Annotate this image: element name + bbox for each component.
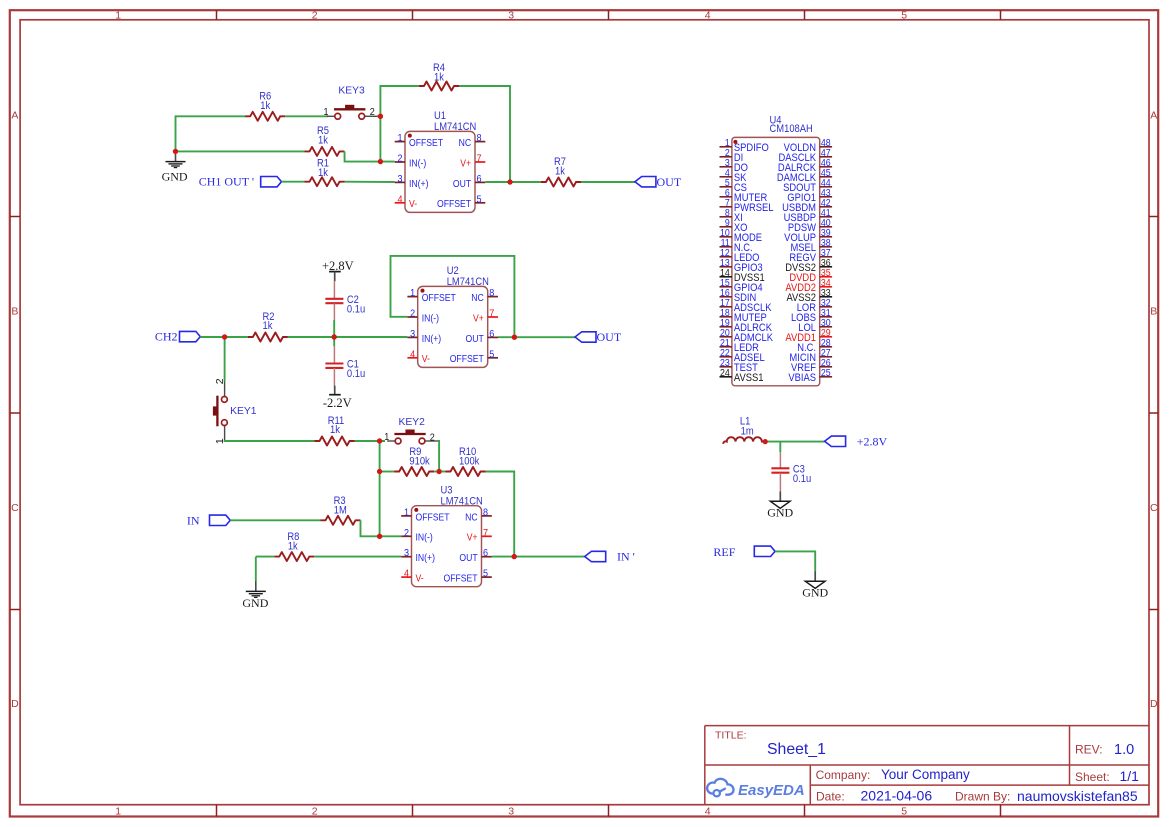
wire node down R9 row — [379, 441, 381, 472]
svg-text:5: 5 — [901, 806, 907, 818]
svg-text:Sheet_1: Sheet_1 — [767, 741, 826, 758]
svg-text:1: 1 — [410, 288, 415, 300]
svg-text:GND: GND — [162, 169, 188, 183]
svg-text:6: 6 — [489, 328, 494, 340]
junction U3 OUT node — [512, 554, 517, 559]
inductor L1 — [723, 416, 765, 444]
svg-text:Your Company: Your Company — [881, 767, 970, 782]
svg-text:Company:: Company: — [816, 768, 871, 782]
svg-text:IN(-): IN(-) — [409, 158, 426, 170]
svg-text:4: 4 — [397, 194, 403, 206]
svg-text:1: 1 — [384, 431, 389, 443]
wire GND to R6 — [176, 116, 246, 151]
svg-text:+2.8V: +2.8V — [322, 259, 354, 273]
svg-text:D: D — [11, 698, 19, 710]
op-amp U1 LM741CN — [395, 111, 486, 213]
svg-text:4: 4 — [404, 568, 410, 580]
svg-text:1M: 1M — [334, 505, 347, 517]
svg-text:KEY3: KEY3 — [338, 85, 365, 96]
svg-text:910k: 910k — [409, 456, 430, 468]
svg-text:CH2: CH2 — [155, 330, 178, 344]
svg-text:8: 8 — [483, 507, 488, 519]
svg-text:LM741CN: LM741CN — [441, 496, 483, 508]
svg-text:5: 5 — [483, 568, 488, 580]
wire node to R10 — [439, 471, 445, 473]
net flag OUT (ch1) — [635, 175, 682, 189]
wire junction to C1 — [333, 337, 335, 346]
wire R3 to U3 IN(-) — [361, 520, 402, 536]
title block — [705, 726, 1149, 805]
junction KEY3/R4 node — [378, 114, 383, 119]
resistor R9 — [394, 446, 434, 476]
wire C2 to junction — [333, 320, 335, 337]
net flag +2.8V — [825, 435, 888, 449]
svg-text:V-: V- — [416, 573, 424, 585]
svg-text:NC: NC — [459, 137, 472, 149]
resistor R10 — [446, 446, 486, 476]
svg-text:KEY2: KEY2 — [399, 417, 426, 428]
svg-text:3: 3 — [508, 806, 514, 818]
net flag OUT (ch2) — [575, 330, 622, 344]
wire CH1 flag to R1 — [282, 181, 305, 183]
svg-text:OFFSET: OFFSET — [416, 512, 450, 524]
svg-text:LM741CN: LM741CN — [434, 122, 476, 134]
wire KEY1 to R11 — [225, 440, 315, 441]
svg-text:NC: NC — [465, 512, 478, 524]
svg-text:V+: V+ — [467, 532, 478, 544]
svg-text:A: A — [11, 110, 18, 122]
junction KEY2/R9 node — [377, 438, 382, 443]
svg-text:1k: 1k — [434, 72, 445, 84]
wire IN to R3 — [230, 519, 320, 521]
wire R5 to IN(-) — [345, 151, 395, 161]
wire U2 OUT to flag — [498, 336, 575, 338]
svg-text:CM108AH: CM108AH — [770, 123, 813, 135]
svg-text:OUT: OUT — [459, 552, 477, 564]
net flag IN' — [585, 550, 635, 564]
svg-text:2: 2 — [370, 107, 375, 119]
svg-text:VBIAS: VBIAS — [788, 372, 816, 384]
wire R1 to IN(+) — [345, 181, 395, 183]
junction U1 IN(-) node — [378, 159, 383, 164]
svg-text:TITLE:: TITLE: — [715, 730, 747, 742]
svg-text:1k: 1k — [555, 166, 566, 178]
svg-text:OFFSET: OFFSET — [450, 354, 484, 366]
svg-text:naumovskistefan85: naumovskistefan85 — [1017, 788, 1138, 804]
junction R9 left node — [377, 469, 382, 474]
wire R7 to OUT flag — [581, 181, 635, 183]
resistor R4 — [419, 62, 459, 90]
svg-text:0.1u: 0.1u — [347, 369, 365, 381]
wire REF to ground — [775, 551, 815, 571]
junction U3 IN(-) node — [377, 534, 382, 539]
junction GND/R5 node — [173, 149, 178, 154]
capacitor C3 — [771, 452, 811, 491]
svg-text:1.0: 1.0 — [1114, 742, 1134, 758]
junction CH2/KEY1 node — [222, 334, 227, 339]
svg-text:U1: U1 — [434, 111, 446, 123]
svg-text:U2: U2 — [447, 266, 459, 278]
ic U4 CM108AH — [720, 115, 833, 386]
svg-text:4: 4 — [410, 349, 416, 361]
svg-text:C: C — [1150, 502, 1158, 514]
resistor R8 — [274, 531, 314, 561]
svg-text:D: D — [1150, 698, 1158, 710]
capacitor C2 — [325, 281, 365, 320]
svg-text:3: 3 — [404, 548, 409, 560]
svg-text:KEY1: KEY1 — [230, 406, 257, 417]
svg-text:2: 2 — [397, 153, 402, 165]
svg-text:OUT: OUT — [597, 330, 622, 344]
svg-text:B: B — [1150, 306, 1157, 318]
svg-text:GND: GND — [242, 596, 268, 610]
key KEY2 — [384, 417, 438, 444]
wire U2 feedback loop — [391, 256, 515, 337]
wire R6 to KEY3 — [285, 115, 328, 117]
ground GND (left) — [162, 151, 188, 183]
net flag CH1 OUT' — [199, 175, 282, 189]
svg-text:OFFSET: OFFSET — [422, 292, 456, 304]
wire R2 to U2 IN(+) — [288, 336, 408, 338]
svg-text:5: 5 — [901, 10, 907, 22]
svg-text:NC: NC — [471, 292, 484, 304]
svg-text:IN(+): IN(+) — [409, 178, 428, 190]
net flag CH2 — [155, 330, 200, 344]
svg-text:IN: IN — [187, 513, 200, 527]
wire R9 to node — [434, 471, 439, 473]
svg-text:IN(-): IN(-) — [422, 313, 439, 325]
wire R10 to U3 OUT node — [486, 472, 515, 557]
EasyEDA logo — [707, 779, 805, 799]
wire L1 to +2.8V flag — [765, 441, 824, 443]
svg-text:CH1 OUT ': CH1 OUT ' — [199, 175, 254, 189]
svg-text:1: 1 — [115, 806, 121, 818]
svg-text:7: 7 — [483, 527, 488, 539]
svg-text:8: 8 — [477, 133, 482, 145]
svg-text:1k: 1k — [318, 135, 329, 147]
svg-text:C: C — [11, 502, 19, 514]
power port +2.8V — [322, 259, 354, 282]
svg-text:2: 2 — [214, 378, 226, 384]
capacitor C1 — [325, 346, 365, 386]
wire node down to IN(-) junction — [379, 116, 381, 161]
svg-text:1: 1 — [404, 507, 409, 519]
wire R4 feedback loop left — [380, 86, 419, 116]
resistor R7 — [541, 156, 581, 186]
key KEY1 (vertical) — [213, 378, 257, 444]
svg-text:1k: 1k — [263, 321, 274, 333]
resistor R6 — [245, 91, 285, 121]
svg-text:OUT: OUT — [657, 175, 682, 189]
svg-text:A: A — [1150, 110, 1157, 122]
svg-text:7: 7 — [477, 153, 482, 165]
svg-text:1k: 1k — [330, 424, 341, 436]
svg-text:V+: V+ — [473, 313, 484, 325]
junction U1 OUT node — [507, 179, 512, 184]
op-amp U3 LM741CN — [401, 485, 492, 587]
svg-text:V+: V+ — [460, 158, 471, 170]
svg-text:LM741CN: LM741CN — [447, 277, 489, 289]
key KEY3 — [323, 85, 377, 119]
svg-text:5: 5 — [477, 194, 482, 206]
wire GND to R5 — [176, 150, 305, 152]
junction L1 output node — [763, 439, 768, 444]
wire down to C3 — [779, 442, 781, 453]
svg-text:-2.2V: -2.2V — [323, 396, 352, 410]
junction U2 OUT node — [512, 335, 517, 340]
wire R8 to U3 IN(+) — [314, 556, 401, 558]
resistor R5 — [305, 125, 345, 155]
svg-text:3: 3 — [397, 173, 402, 185]
svg-text:1: 1 — [115, 10, 121, 22]
svg-text:OFFSET: OFFSET — [437, 199, 471, 211]
svg-text:V-: V- — [409, 199, 417, 211]
svg-text:+2.8V: +2.8V — [857, 435, 888, 449]
svg-text:100k: 100k — [459, 456, 480, 468]
svg-text:3: 3 — [410, 328, 415, 340]
wire GND corner to R8 — [256, 556, 274, 558]
svg-text:1/1: 1/1 — [1120, 768, 1140, 784]
wire KEY2 to R10 input — [438, 441, 439, 472]
svg-text:3: 3 — [508, 10, 514, 22]
svg-text:U3: U3 — [441, 485, 453, 497]
svg-text:Sheet:: Sheet: — [1075, 770, 1110, 784]
svg-text:IN(-): IN(-) — [416, 532, 433, 544]
svg-text:IN ': IN ' — [617, 550, 635, 564]
svg-text:V-: V- — [422, 354, 430, 366]
junction R9/R10 node — [436, 469, 441, 474]
svg-text:4: 4 — [705, 10, 711, 22]
svg-text:1: 1 — [397, 133, 402, 145]
svg-text:Drawn By:: Drawn By: — [955, 789, 1010, 803]
svg-text:OUT: OUT — [453, 178, 471, 190]
svg-text:1k: 1k — [288, 541, 299, 553]
svg-text:REV:: REV: — [1075, 743, 1103, 757]
svg-text:B: B — [11, 306, 18, 318]
wire R4 to OUT node — [459, 86, 510, 182]
svg-text:IN(+): IN(+) — [416, 552, 435, 564]
svg-text:0.1u: 0.1u — [347, 304, 365, 316]
svg-text:2: 2 — [410, 308, 415, 320]
svg-text:AVSS1: AVSS1 — [734, 372, 764, 384]
net flag REF — [713, 545, 775, 559]
ground GND (C3) — [767, 492, 793, 520]
net flag IN — [187, 513, 230, 527]
svg-text:OFFSET: OFFSET — [444, 573, 478, 585]
wire node down to IN(-) row — [379, 472, 381, 537]
wire junction to R9 — [380, 471, 395, 473]
svg-text:1k: 1k — [260, 100, 271, 112]
svg-text:2: 2 — [312, 10, 318, 22]
svg-text:1m: 1m — [741, 426, 754, 438]
svg-text:6: 6 — [477, 173, 482, 185]
svg-text:8: 8 — [489, 288, 494, 300]
wire KEY3 to node — [378, 115, 381, 117]
svg-text:1: 1 — [323, 107, 328, 119]
svg-text:5: 5 — [489, 349, 494, 361]
svg-text:EasyEDA: EasyEDA — [738, 782, 805, 799]
wire U3 OUT to flag — [492, 556, 585, 558]
svg-text:2: 2 — [404, 527, 409, 539]
op-amp U2 LM741CN — [407, 266, 498, 368]
svg-text:6: 6 — [483, 548, 488, 560]
svg-text:7: 7 — [489, 308, 494, 320]
svg-text:1k: 1k — [318, 167, 329, 179]
svg-text:GND: GND — [767, 506, 793, 520]
resistor R3 — [321, 495, 361, 524]
svg-text:GND: GND — [802, 586, 828, 600]
svg-text:REF: REF — [713, 545, 735, 559]
resistor R2 — [248, 312, 288, 342]
wire CH2 to R2 — [200, 336, 248, 338]
power port -2.2V — [323, 386, 352, 410]
resistor R1 — [305, 158, 345, 186]
svg-text:25: 25 — [821, 367, 831, 379]
svg-text:IN(+): IN(+) — [422, 333, 441, 345]
svg-text:2: 2 — [312, 806, 318, 818]
svg-text:0.1u: 0.1u — [793, 473, 811, 485]
ground GND (R8) — [242, 557, 268, 611]
ground GND (REF) — [802, 571, 828, 599]
wire CH2 node down to KEY1 — [224, 337, 226, 382]
svg-text:2021-04-06: 2021-04-06 — [861, 788, 933, 804]
svg-text:OFFSET: OFFSET — [409, 137, 443, 149]
svg-text:OUT: OUT — [466, 333, 484, 345]
wire R11 to KEY2 — [355, 440, 386, 442]
svg-text:2: 2 — [430, 432, 435, 444]
svg-text:Date:: Date: — [816, 789, 845, 803]
resistor R11 — [315, 415, 355, 445]
wire U1 OUT to R7 — [485, 181, 541, 183]
svg-text:4: 4 — [705, 806, 711, 818]
junction C1/C2 node — [332, 334, 337, 339]
svg-text:24: 24 — [720, 367, 730, 379]
